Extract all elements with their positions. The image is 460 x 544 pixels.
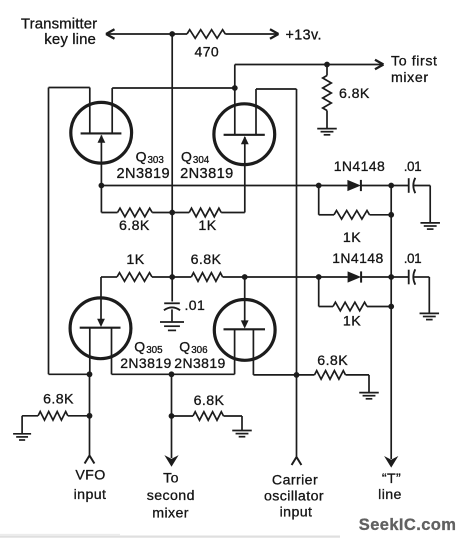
svg-text:6.8K: 6.8K <box>191 252 222 268</box>
svg-text:line: line <box>378 487 402 503</box>
svg-text:6.8K: 6.8K <box>194 393 225 409</box>
svg-text:key line: key line <box>44 31 96 48</box>
svg-text:VFO: VFO <box>75 467 105 483</box>
svg-text:.01: .01 <box>185 297 206 313</box>
svg-text:6.8K: 6.8K <box>119 218 150 234</box>
svg-text:SeekIC.com: SeekIC.com <box>359 516 457 534</box>
svg-text:1K: 1K <box>343 314 361 330</box>
svg-text:+13v.: +13v. <box>286 27 322 43</box>
svg-text:1K: 1K <box>198 218 216 234</box>
svg-text:2N3819: 2N3819 <box>120 355 171 371</box>
svg-text:1N4148: 1N4148 <box>334 158 385 174</box>
svg-text:Transmitter: Transmitter <box>21 16 97 33</box>
svg-text:“T”: “T” <box>382 471 401 487</box>
svg-text:1K: 1K <box>343 230 361 246</box>
svg-text:.01: .01 <box>404 159 422 174</box>
svg-text:.01: .01 <box>404 251 422 266</box>
svg-text:oscillator: oscillator <box>264 488 324 504</box>
svg-text:mixer: mixer <box>152 506 189 522</box>
svg-text:6.8K: 6.8K <box>317 353 348 369</box>
svg-text:2N3819: 2N3819 <box>180 166 234 182</box>
svg-text:Carrier: Carrier <box>272 472 318 488</box>
svg-text:470: 470 <box>195 44 220 60</box>
svg-text:input: input <box>74 487 107 503</box>
svg-text:mixer: mixer <box>391 70 429 86</box>
svg-text:To first: To first <box>391 53 438 69</box>
svg-text:second: second <box>147 488 195 504</box>
svg-text:input: input <box>280 504 313 520</box>
svg-text:1N4148: 1N4148 <box>332 250 383 266</box>
svg-text:2N3819: 2N3819 <box>117 166 171 182</box>
svg-text:6.8K: 6.8K <box>43 392 74 408</box>
svg-text:To: To <box>163 471 179 487</box>
svg-text:2N3819: 2N3819 <box>174 355 225 371</box>
svg-text:6.8K: 6.8K <box>339 86 370 102</box>
svg-text:1K: 1K <box>126 252 144 268</box>
